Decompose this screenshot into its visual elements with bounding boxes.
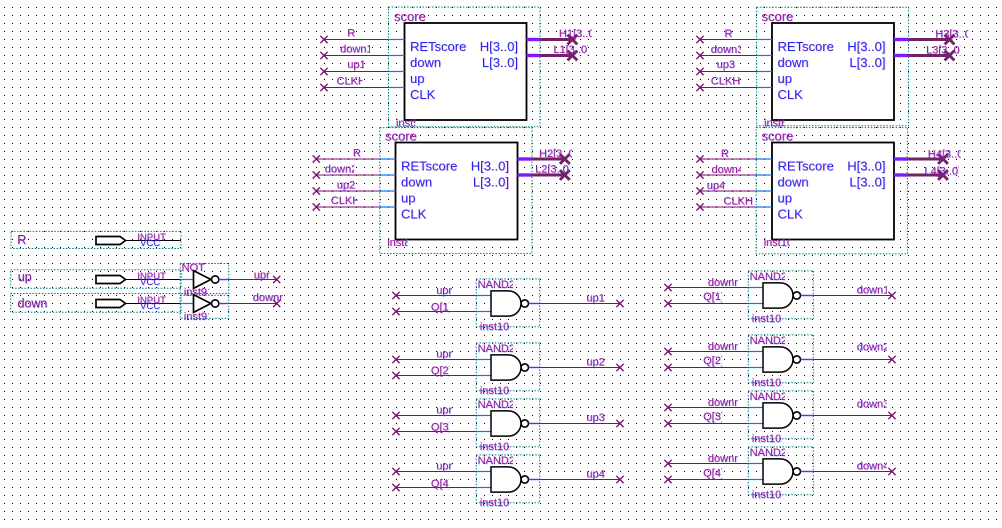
wire up4 to U4/inst10 pin up: [700, 190, 756, 192]
svg-text:down3: down3: [857, 399, 889, 411]
U3/inst6 pin stub down: [757, 55, 772, 57]
U3/inst6 pin stub CLK: [757, 87, 772, 89]
label CLKH on wire to U4/inst10.CLK: [724, 196, 754, 209]
svg-text:R: R: [353, 147, 361, 159]
svg-text:H[3..0]: H[3..0]: [847, 159, 885, 174]
svg-text:Q[2]: Q[2]: [431, 365, 452, 377]
svg-text:CLK: CLK: [778, 207, 804, 222]
wire downr to NAND2 R4 input A: [668, 463, 748, 465]
input pin R symbol: [96, 237, 126, 245]
label up1 on wire to U1/inst5.up: [347, 59, 366, 72]
label downr on NAND2 R3 input A: [708, 397, 739, 410]
label down1 on wire to U1/inst5.down: [340, 43, 373, 56]
NAND2 L2 bubble: [521, 364, 528, 371]
wire from input pin R: [126, 240, 182, 242]
input pin up selection box: [11, 270, 181, 289]
wire down2 from NAND2 R2 output: [813, 359, 892, 361]
NAND2 R3 instance name label: [752, 433, 782, 446]
svg-text:R: R: [721, 148, 729, 160]
svg-text:up2: up2: [337, 180, 355, 192]
svg-text:down4: down4: [857, 460, 889, 472]
U3/inst6 pin stub RETscore: [757, 39, 772, 41]
wire downr to NAND2 R2 input A: [668, 351, 748, 353]
NAND2 R4 bubble: [793, 468, 800, 475]
svg-text:up2: up2: [586, 356, 604, 368]
wire Q[4] to NAND2 L4 input B: [396, 487, 476, 489]
svg-text:Q[3]: Q[3]: [703, 411, 724, 423]
wire down3 from NAND2 R3 output: [813, 415, 892, 417]
bus wire L3[3..0] from U3/inst6.L[3..0]: [909, 54, 950, 57]
label CLKH on wire to U3/inst6.CLK: [711, 76, 741, 89]
svg-text:NAND2: NAND2: [478, 455, 515, 467]
NOT gate 1 triangle: [194, 271, 211, 289]
U2/inst8 instance name label: [387, 237, 411, 250]
label down2 on NAND2 R2 output: [857, 342, 890, 355]
svg-text:inst10: inst10: [480, 441, 509, 453]
label H4[3..0] on bus from U4/inst10.H[3..0]: [928, 149, 967, 162]
label down2 on wire to U2/inst8.down: [325, 163, 358, 176]
U4/inst10 pin stub RETscore: [756, 158, 772, 160]
svg-text:Q[1]: Q[1]: [431, 302, 452, 314]
wire Q[3] to NAND2 R3 input B: [668, 423, 748, 425]
svg-text:upr: upr: [436, 460, 452, 472]
wire upr to NAND2 L2 input A: [396, 359, 476, 361]
bus wire H3[3..0] from U3/inst6.H[3..0]: [909, 38, 950, 41]
svg-text:downr: downr: [708, 341, 738, 353]
svg-text:up: up: [401, 191, 415, 206]
NAND2 L2 body: [491, 355, 521, 380]
svg-text:NAND2: NAND2: [478, 279, 515, 291]
svg-text:up1: up1: [347, 59, 365, 71]
wire Q[1] to NAND2 L1 input B: [396, 311, 476, 313]
svg-text:inst10: inst10: [752, 377, 781, 389]
label CLKH on wire to U1/inst5.CLK: [337, 76, 367, 89]
svg-text:up: up: [778, 191, 792, 206]
wire upr to NAND2 L3 input A: [396, 415, 476, 417]
NAND2 L1 instance name label: [480, 321, 510, 334]
label down1 on NAND2 R1 output: [857, 284, 890, 297]
svg-text:down3: down3: [711, 44, 743, 56]
svg-text:CLKH: CLKH: [337, 76, 366, 88]
NOT gate 2 instance name label: [184, 311, 214, 324]
bus wire L2[3..0] from U2/inst8.L[3..0]: [532, 174, 565, 177]
svg-text:down1: down1: [340, 43, 372, 55]
label Q[3] on NAND2 L3 input B: [431, 421, 452, 434]
input pin R selection box: [11, 231, 181, 248]
NAND2 R2 bubble: [793, 356, 800, 363]
svg-text:up: up: [18, 270, 32, 284]
svg-text:NAND2: NAND2: [750, 391, 787, 403]
NAND2 R4 selection box: [748, 447, 813, 495]
svg-text:NAND2: NAND2: [750, 271, 787, 283]
label up3 on wire to U3/inst6.up: [717, 59, 736, 72]
wire upr to NAND2 L1 input A: [396, 295, 476, 297]
wire CLKH to U4/inst10 pin CLK: [700, 206, 756, 208]
label R on wire to U3/inst6.RETscore: [725, 28, 734, 41]
U2/inst8 bus pin stub L[3..0]: [518, 173, 533, 176]
label Q[3] on NAND2 R3 input B: [703, 411, 724, 424]
bus wire H4[3..0] from U4/inst10.H[3..0]: [907, 158, 943, 161]
NAND2 L1 input stub B: [476, 311, 491, 313]
U2/inst8 pin stub RETscore: [380, 158, 396, 160]
svg-text:downr: downr: [708, 397, 738, 409]
svg-text:Q[3]: Q[3]: [431, 421, 452, 433]
NAND2 L4 symbol name label: [478, 455, 516, 468]
score block U3/inst6 selection box: [757, 7, 909, 126]
svg-text:NAND2: NAND2: [750, 447, 787, 459]
label Q[1] on NAND2 L1 input B: [431, 302, 452, 315]
label upr on NAND2 L2 input A: [436, 348, 453, 361]
svg-text:VCC: VCC: [140, 238, 160, 249]
label upr on NAND2 L4 input A: [436, 460, 453, 473]
NAND2 R4 output stub: [801, 471, 814, 473]
wire R to U3/inst6 pin RETscore: [700, 39, 757, 41]
wire up2 from NAND2 L2 output: [540, 367, 620, 369]
svg-text:NAND2: NAND2: [478, 399, 515, 411]
NAND2 R1 selection box: [748, 271, 813, 319]
U3/inst6 bus pin stub L[3..0]: [894, 54, 909, 57]
label CLKH on wire to U2/inst8.CLK: [331, 195, 361, 208]
svg-text:R: R: [347, 28, 355, 40]
wire downr to NAND2 R3 input A: [668, 407, 748, 409]
label up3 on NAND2 L3 output: [586, 412, 605, 425]
U1/inst5 pin stub RETscore: [389, 39, 405, 41]
svg-text:down: down: [778, 175, 809, 190]
NAND2 R2 body: [763, 347, 793, 372]
NAND2 R1 body: [763, 283, 793, 308]
U2/inst8 pin stub down: [380, 174, 396, 176]
svg-text:CLK: CLK: [410, 87, 436, 102]
bus wire L4[3..0] from U4/inst10.L[3..0]: [907, 174, 943, 177]
svg-text:CLKH: CLKH: [331, 195, 360, 207]
svg-text:inst91: inst91: [184, 311, 213, 323]
label R on wire to U1/inst5.RETscore: [347, 28, 356, 41]
svg-text:inst10: inst10: [764, 237, 793, 249]
NAND2 R3 body: [763, 403, 793, 428]
label up1 on NAND2 L1 output: [586, 292, 605, 305]
wire Q[3] to NAND2 L3 input B: [396, 431, 476, 433]
wire from input pin up: [126, 279, 181, 281]
svg-text:CLK: CLK: [778, 87, 804, 102]
NAND2 R3 input stub A: [748, 407, 763, 409]
wire down1 from NAND2 R1 output: [813, 295, 892, 297]
wire up1 from NAND2 L1 output: [540, 303, 620, 305]
U4/inst10 bus pin stub L[3..0]: [894, 173, 907, 176]
svg-text:R: R: [17, 233, 26, 247]
svg-text:NAND2: NAND2: [750, 335, 787, 347]
U2/inst8 pin stub up: [380, 190, 396, 192]
svg-text:NAND2: NAND2: [478, 343, 515, 355]
svg-text:inst10: inst10: [480, 321, 509, 333]
wire up3 from NAND2 L3 output: [540, 423, 620, 425]
NAND2 R2 symbol name label: [750, 335, 788, 348]
NAND2 L3 bubble: [521, 420, 528, 427]
NAND2 L4 instance name label: [480, 497, 510, 510]
NAND2 R4 symbol name label: [750, 447, 788, 460]
svg-text:down1: down1: [857, 284, 889, 296]
wire Q[4] to NAND2 R4 input B: [668, 479, 748, 481]
NAND2 L2 symbol name label: [478, 343, 516, 356]
NAND2 L1 bubble: [521, 300, 528, 307]
NAND2 L1 symbol name label: [478, 279, 516, 292]
label Q[4] on NAND2 L4 input B: [431, 478, 452, 491]
NAND2 L3 body: [491, 411, 521, 436]
svg-text:down: down: [18, 296, 48, 310]
bus wire H1[3..0] from U1/inst5.H[3..0]: [540, 38, 572, 41]
U2/inst8 pin stub CLK: [380, 206, 396, 208]
wire R to U2/inst8 pin RETscore: [316, 158, 380, 160]
NOT gate 2 bubble: [212, 300, 219, 307]
wire down4 to U4/inst10 pin down: [700, 174, 756, 176]
NAND2 L4 input stub B: [476, 487, 491, 489]
label upr on NAND2 L3 input A: [436, 405, 453, 418]
label down4 on NAND2 R4 output: [857, 460, 890, 473]
U4/inst10 pin stub up: [756, 190, 772, 192]
label H3[3..0] on bus from U3/inst6.H[3..0]: [935, 29, 974, 42]
U4/inst10 instance name label: [764, 237, 794, 250]
NAND2 R4 body: [763, 459, 793, 484]
label down3 on NAND2 R3 output: [857, 399, 890, 412]
wire down3 to U3/inst6 pin down: [700, 55, 757, 57]
svg-text:L3[3..0]: L3[3..0]: [926, 45, 963, 57]
NOT gate 1 bubble: [212, 276, 219, 283]
wire downr to NAND2 R1 input A: [668, 287, 748, 289]
svg-text:L[3..0]: L[3..0]: [849, 55, 885, 70]
NAND2 R2 selection box: [748, 335, 813, 383]
wire upr to NAND2 L4 input A: [396, 471, 476, 473]
U1/inst5 pin stub down: [389, 55, 405, 57]
svg-text:score: score: [762, 9, 794, 24]
NAND2 R3 symbol name label: [750, 391, 788, 404]
wire Q[2] to NAND2 L2 input B: [396, 375, 476, 377]
NOT gate 2 input stub: [180, 303, 193, 305]
U1/inst5 pin stub up: [389, 71, 405, 73]
wire downr from NOT gate 2: [229, 303, 277, 305]
score block U4/inst10 selection box: [756, 128, 907, 254]
svg-text:downr: downr: [708, 453, 738, 465]
svg-text:down4: down4: [712, 164, 744, 176]
label upr on NAND2 L1 input A: [436, 285, 453, 298]
svg-text:RETscore: RETscore: [778, 159, 834, 174]
score block U1/inst5 body: [405, 23, 527, 120]
svg-text:L4[3..0]: L4[3..0]: [924, 166, 961, 178]
NAND2 R2 input stub A: [748, 351, 763, 353]
NAND2 R4 input stub B: [748, 479, 763, 481]
label Q[2] on NAND2 R2 input B: [703, 355, 724, 368]
label L2[3..0] on bus from U2/inst8.L[3..0]: [535, 164, 572, 177]
svg-text:down: down: [401, 175, 432, 190]
svg-text:down2: down2: [325, 163, 357, 175]
svg-text:inst8: inst8: [387, 237, 410, 249]
svg-text:Q[4]: Q[4]: [431, 478, 452, 490]
svg-text:down2: down2: [857, 342, 889, 354]
svg-text:H[3..0]: H[3..0]: [480, 39, 518, 54]
NAND2 R3 output stub: [801, 415, 814, 417]
NAND2 L3 input stub A: [476, 415, 491, 417]
NAND2 L1 input stub A: [476, 295, 491, 297]
svg-text:H2[3..0]: H2[3..0]: [539, 148, 578, 160]
svg-text:L[3..0]: L[3..0]: [482, 55, 518, 70]
U1/inst5 pin stub CLK: [389, 87, 405, 89]
NAND2 L2 selection box: [476, 343, 539, 391]
NAND2 L4 input stub A: [476, 471, 491, 473]
svg-text:up: up: [778, 71, 792, 86]
label R on wire to U2/inst8.RETscore: [353, 147, 362, 160]
NAND2 L2 instance name label: [480, 385, 510, 398]
NAND2 L2 input stub B: [476, 375, 491, 377]
wire R to U1/inst5 pin RETscore: [324, 39, 389, 41]
wire up3 to U3/inst6 pin up: [700, 71, 757, 73]
svg-text:inst10: inst10: [752, 433, 781, 445]
NAND2 R3 input stub B: [748, 423, 763, 425]
NAND2 R3 bubble: [793, 412, 800, 419]
label downr on NAND2 R1 input A: [708, 277, 739, 290]
svg-text:up4: up4: [586, 468, 604, 480]
NAND2 R2 input stub B: [748, 367, 763, 369]
label down3 on wire to U3/inst6.down: [711, 44, 744, 57]
bus wire L1[3..0] from U1/inst5.L[3..0]: [540, 54, 572, 57]
NOT gate inst9b selection box: [180, 295, 229, 318]
NAND2 L4 body: [491, 467, 521, 492]
score block U1/inst5 selection box: [389, 7, 541, 127]
NAND2 R1 instance name label: [752, 313, 782, 326]
svg-text:H4[3..0]: H4[3..0]: [928, 149, 967, 161]
NAND2 L4 output stub: [529, 479, 540, 481]
label R on wire to U4/inst10.RETscore: [721, 148, 730, 161]
NAND2 R1 output stub: [801, 295, 814, 297]
label H1[3..0] on bus from U1/inst5.H[3..0]: [559, 28, 598, 41]
label up4 on NAND2 L4 output: [586, 468, 605, 481]
svg-text:upr: upr: [436, 348, 452, 360]
wire CLKH to U1/inst5 pin CLK: [324, 87, 389, 89]
svg-text:up4: up4: [707, 180, 725, 192]
NOT gate 2 triangle: [194, 295, 211, 313]
svg-text:RETscore: RETscore: [401, 159, 457, 174]
svg-text:RETscore: RETscore: [410, 39, 466, 54]
NOT gate 1 output stub: [219, 279, 229, 281]
input pin up symbol: [96, 276, 126, 284]
svg-text:upr: upr: [254, 269, 270, 281]
svg-text:RETscore: RETscore: [778, 39, 834, 54]
svg-text:up3: up3: [586, 412, 604, 424]
label H2[3..0] on bus from U2/inst8.H[3..0]: [539, 148, 578, 161]
U1/inst5 instance name label: [396, 118, 420, 131]
svg-text:H[3..0]: H[3..0]: [847, 39, 885, 54]
label downr on NAND2 R2 input A: [708, 341, 739, 354]
svg-text:down: down: [410, 55, 441, 70]
svg-text:Q[1]: Q[1]: [703, 291, 724, 303]
wire up2 to U2/inst8 pin up: [316, 190, 380, 192]
wire Q[1] to NAND2 R1 input B: [668, 303, 748, 305]
input pin down symbol: [96, 300, 126, 308]
label Q[1] on NAND2 R1 input B: [703, 291, 724, 304]
NAND2 R2 instance name label: [752, 377, 782, 390]
label Q[4] on NAND2 R4 input B: [703, 467, 724, 480]
svg-text:score: score: [385, 129, 417, 144]
svg-text:inst10: inst10: [752, 313, 781, 325]
label L1[3..0] on bus from U1/inst5.L[3..0]: [553, 44, 590, 57]
svg-text:L2[3..0]: L2[3..0]: [535, 164, 572, 176]
NOT gate 1 instance name label: [184, 287, 214, 300]
svg-text:VCC: VCC: [140, 301, 160, 312]
label down4 on wire to U4/inst10.down: [712, 164, 745, 177]
svg-text:inst10: inst10: [480, 385, 509, 397]
NAND2 R4 input stub A: [748, 463, 763, 465]
label Q[2] on NAND2 L2 input B: [431, 365, 452, 378]
svg-text:Q[2]: Q[2]: [703, 355, 724, 367]
svg-text:up: up: [410, 71, 424, 86]
wire Q[2] to NAND2 R2 input B: [668, 367, 748, 369]
score block U4/inst10 body: [772, 143, 894, 240]
svg-text:inst10: inst10: [480, 497, 509, 509]
input pin down selection box: [11, 294, 181, 313]
NAND2 L1 output stub: [529, 303, 540, 305]
svg-text:L[3..0]: L[3..0]: [849, 175, 885, 190]
U4/inst10 pin stub CLK: [756, 206, 772, 208]
svg-text:CLKH: CLKH: [711, 76, 740, 88]
svg-text:H1[3..0]: H1[3..0]: [559, 28, 598, 40]
NAND2 R4 instance name label: [752, 489, 782, 502]
wire down2 to U2/inst8 pin down: [316, 174, 380, 176]
label up2 on NAND2 L2 output: [586, 356, 605, 369]
wire R to U4/inst10 pin RETscore: [700, 158, 756, 160]
label up2 on wire to U2/inst8.up: [337, 180, 356, 193]
NAND2 L4 selection box: [476, 455, 539, 503]
svg-text:upr: upr: [436, 285, 452, 297]
svg-text:score: score: [394, 9, 426, 24]
label L4[3..0] on bus from U4/inst10.L[3..0]: [924, 166, 961, 179]
U1/inst5 bus pin stub H[3..0]: [527, 38, 541, 41]
wire down4 from NAND2 R4 output: [813, 471, 892, 473]
svg-text:Q[4]: Q[4]: [703, 467, 724, 479]
NAND2 R3 selection box: [748, 391, 813, 439]
svg-text:inst10: inst10: [752, 489, 781, 501]
wire down1 to U1/inst5 pin down: [324, 55, 389, 57]
NAND2 L2 input stub A: [476, 359, 491, 361]
U2/inst8 bus pin stub H[3..0]: [518, 157, 533, 160]
svg-text:CLKH: CLKH: [724, 196, 753, 208]
label downr on NAND2 R4 input A: [708, 453, 739, 466]
wire up1 to U1/inst5 pin up: [324, 71, 389, 73]
svg-text:up1: up1: [586, 292, 604, 304]
svg-text:H3[3..0]: H3[3..0]: [935, 29, 974, 41]
svg-text:VCC: VCC: [140, 277, 160, 288]
svg-text:score: score: [762, 129, 794, 144]
NAND2 L2 output stub: [529, 367, 540, 369]
svg-text:down: down: [778, 55, 809, 70]
svg-text:up3: up3: [717, 59, 735, 71]
NAND2 R2 output stub: [801, 359, 814, 361]
wire upr from NOT gate 1: [229, 279, 277, 281]
NOT gate 1 input stub: [180, 279, 193, 281]
U1/inst5 bus pin stub L[3..0]: [527, 54, 541, 57]
score block U2/inst8 selection box: [380, 128, 532, 254]
svg-text:CLK: CLK: [401, 207, 427, 222]
label L3[3..0] on bus from U3/inst6.L[3..0]: [926, 45, 963, 58]
svg-text:H[3..0]: H[3..0]: [471, 159, 509, 174]
NAND2 L3 symbol name label: [478, 399, 516, 412]
wire up4 from NAND2 L4 output: [540, 479, 620, 481]
NAND2 R1 bubble: [793, 292, 800, 299]
NAND2 R1 input stub B: [748, 303, 763, 305]
NAND2 L3 selection box: [476, 399, 539, 447]
U4/inst10 pin stub down: [756, 174, 772, 176]
wire CLKH to U2/inst8 pin CLK: [316, 206, 380, 208]
NAND2 L3 output stub: [529, 423, 540, 425]
svg-text:downr: downr: [253, 292, 283, 304]
label up4 on wire to U4/inst10.up: [707, 180, 726, 193]
NOT gate inst9 selection box: [180, 264, 229, 294]
